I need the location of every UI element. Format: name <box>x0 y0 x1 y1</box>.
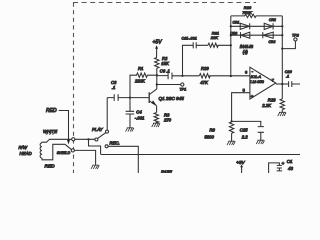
pin 7 label <box>272 78 275 83</box>
wire pin5 <box>232 93 250 122</box>
wire white terminal to switch common <box>75 138 95 140</box>
capacitor C16 <box>289 81 300 87</box>
svg-text:C11-.001: C11-.001 <box>182 37 197 41</box>
svg-text:LM-358: LM-358 <box>250 79 264 84</box>
label RED (top) <box>46 108 57 114</box>
switch common pole <box>95 138 98 141</box>
svg-text:R15E: R15E <box>161 170 172 173</box>
wire shield to ground <box>74 150 95 165</box>
wire to TP2 <box>282 41 295 49</box>
svg-text:R1: R1 <box>138 66 143 71</box>
resistor R3 <box>154 113 158 123</box>
label R28 <box>268 97 276 102</box>
dashed boundary vertical <box>73 3 75 174</box>
svg-text:C1: C1 <box>287 159 293 164</box>
svg-text:R29: R29 <box>201 66 209 71</box>
svg-text:RED: RED <box>46 108 57 114</box>
resistor R31 <box>208 43 231 47</box>
wire op-amp output <box>276 83 289 85</box>
svg-text:R28: R28 <box>268 97 276 102</box>
label CR1 <box>233 21 240 25</box>
svg-text:47K: 47K <box>200 80 208 85</box>
ground (C4) <box>126 128 134 132</box>
junction bottom row left <box>230 34 232 36</box>
capacitor C11 <box>183 42 208 76</box>
power +5V (bottom section) <box>236 160 245 173</box>
junction output node <box>281 83 283 85</box>
svg-text:PLAY: PLAY <box>92 127 104 132</box>
svg-text:C16: C16 <box>285 70 293 74</box>
label C3 value <box>111 80 117 90</box>
wire head node to record line <box>89 139 101 154</box>
label R2 <box>162 56 168 61</box>
wire record bus <box>101 154 300 156</box>
label CR4 <box>269 40 276 44</box>
wire REC to bottom section <box>108 146 138 173</box>
label R1 value <box>134 79 145 84</box>
label R/W HEAD <box>19 145 33 156</box>
svg-text:REC.: REC. <box>110 141 120 146</box>
junction bottom row right <box>281 34 283 36</box>
svg-text:CR2: CR2 <box>269 18 276 22</box>
pin 6 label <box>245 69 248 74</box>
svg-text:+: + <box>251 94 254 99</box>
label CR3 <box>230 32 237 36</box>
svg-text:2.2: 2.2 <box>241 135 248 140</box>
resistor R26 <box>231 14 282 17</box>
label R3 <box>164 112 170 117</box>
ground (shield) <box>91 165 99 169</box>
label cut text bottom <box>161 170 172 175</box>
node white terminal <box>72 138 75 141</box>
resistor R2 <box>155 58 159 76</box>
junction head node <box>87 138 89 140</box>
label C1 <box>287 159 294 171</box>
node shield terminal <box>71 149 74 152</box>
node TP2 <box>294 38 297 41</box>
label R29 value <box>200 80 208 85</box>
label TP2 <box>292 33 299 37</box>
svg-text:CR1: CR1 <box>233 21 240 25</box>
resistor R1 <box>130 73 157 98</box>
svg-text:Q1 2SC 945: Q1 2SC 945 <box>159 96 185 101</box>
diode CR3 <box>241 32 250 38</box>
junction TP2 branch <box>281 48 283 50</box>
svg-text:43: 43 <box>288 166 293 171</box>
svg-text:TP2: TP2 <box>292 33 299 37</box>
label R31 <box>212 30 219 35</box>
label C4 <box>135 109 145 120</box>
svg-text:R/W: R/W <box>19 145 28 150</box>
svg-text:WHITE: WHITE <box>43 129 57 134</box>
junction base node <box>129 97 131 99</box>
svg-text:220K: 220K <box>134 79 145 84</box>
capacitor C4 <box>126 98 135 128</box>
diode CR1 <box>240 23 250 29</box>
label R1 <box>138 66 143 71</box>
junction collector top <box>156 74 158 76</box>
svg-text:750K: 750K <box>242 10 252 15</box>
svg-text:IN4148: IN4148 <box>240 44 254 49</box>
resistor R28 <box>280 99 284 112</box>
dashed boundary horizontal <box>73 2 256 4</box>
label C11 value <box>182 37 197 41</box>
svg-text:HEAD: HEAD <box>20 151 33 156</box>
label R6 <box>210 128 216 133</box>
junction TP1 branch <box>156 83 158 85</box>
wire feedback left rail <box>230 16 232 76</box>
op-amp U1 IC1-A LM-358 <box>250 67 276 99</box>
svg-text:TP1: TP1 <box>180 87 187 91</box>
svg-text:C6 .1: C6 .1 <box>160 68 170 73</box>
label R26 value <box>242 10 252 15</box>
svg-text:270: 270 <box>163 117 172 122</box>
svg-text:-.001: -.001 <box>135 115 145 120</box>
label Q1 2SC945 <box>159 96 185 101</box>
node TP1 <box>181 83 184 86</box>
svg-text:5600: 5600 <box>205 135 215 140</box>
svg-text:2.2K: 2.2K <box>261 103 271 108</box>
switch REC contact <box>105 145 108 148</box>
ground (R28) <box>278 112 286 116</box>
label C1 polarity <box>282 161 285 166</box>
label REC. <box>110 141 120 146</box>
wire RED leader <box>59 111 69 141</box>
capacitor C1 <box>277 165 283 171</box>
ground (R6) <box>227 141 235 145</box>
wire to TP1 <box>157 84 181 86</box>
label R26 <box>244 5 252 10</box>
resistor R6 <box>229 122 233 141</box>
svg-text:C15: C15 <box>240 128 248 133</box>
label R6 value <box>205 135 215 140</box>
junction top row left <box>230 25 232 27</box>
junction feedback left at C11 line <box>230 44 232 46</box>
label C6 value <box>160 68 170 73</box>
arrow RED to head <box>67 140 70 145</box>
diode CR2 <box>264 23 273 29</box>
junction R6 top <box>231 120 233 122</box>
wire collector <box>156 75 158 89</box>
label TP1 <box>180 87 187 91</box>
wire head white lead <box>42 139 72 143</box>
label R2 value <box>161 61 169 66</box>
label C16 <box>285 70 293 79</box>
wire feedback right rail <box>281 16 283 99</box>
label WHITE <box>43 129 57 135</box>
svg-text:+5V: +5V <box>153 40 163 46</box>
svg-text:CR3: CR3 <box>230 32 237 36</box>
label CR2 <box>269 18 276 22</box>
switch lever <box>98 133 106 139</box>
junction top row right <box>281 25 283 27</box>
label PLAY <box>92 127 104 132</box>
svg-text:CR4: CR4 <box>269 40 276 44</box>
wire C1 branch <box>269 163 280 173</box>
junction C11 tap <box>181 75 183 77</box>
ground (C15) <box>256 140 264 144</box>
svg-text:C4: C4 <box>136 109 142 114</box>
pin 5 label <box>243 88 246 93</box>
wire head shield trace <box>42 144 72 160</box>
ground (R3) <box>152 123 160 127</box>
svg-text:RED: RED <box>45 164 56 170</box>
label R3 value <box>163 117 172 122</box>
svg-text:R6: R6 <box>210 128 216 133</box>
wire diode row bottom <box>231 34 282 36</box>
svg-text:(4): (4) <box>243 49 249 54</box>
junction inverting input node <box>230 75 232 77</box>
label R29 <box>201 66 209 71</box>
svg-text:.1: .1 <box>112 85 116 90</box>
capacitor C3 <box>107 94 130 101</box>
switch PLAY contact <box>106 130 109 133</box>
label IN4148 (4) <box>240 44 254 55</box>
label R31 value <box>210 35 218 40</box>
capacitor C15 <box>232 121 264 140</box>
inductor head coil <box>40 143 42 158</box>
svg-text:15K: 15K <box>161 61 169 66</box>
diode CR4 <box>263 32 273 38</box>
capacitor C6 <box>157 73 199 80</box>
svg-text:SHIELD: SHIELD <box>57 151 71 155</box>
transistor Q1 <box>149 89 157 113</box>
wire diode row top <box>231 25 282 27</box>
svg-text:22K: 22K <box>210 35 218 40</box>
svg-text:+5V: +5V <box>236 160 245 165</box>
wire PLAY contact to C3 <box>106 98 108 131</box>
power +5V <box>153 40 163 58</box>
label SHIELD <box>57 151 71 155</box>
svg-text:.1: .1 <box>286 74 289 78</box>
label C15 <box>240 128 248 140</box>
resistor R29 <box>199 74 250 78</box>
label R28 value <box>261 103 271 108</box>
label RED (bottom) <box>45 164 56 170</box>
wire base node <box>130 97 149 99</box>
